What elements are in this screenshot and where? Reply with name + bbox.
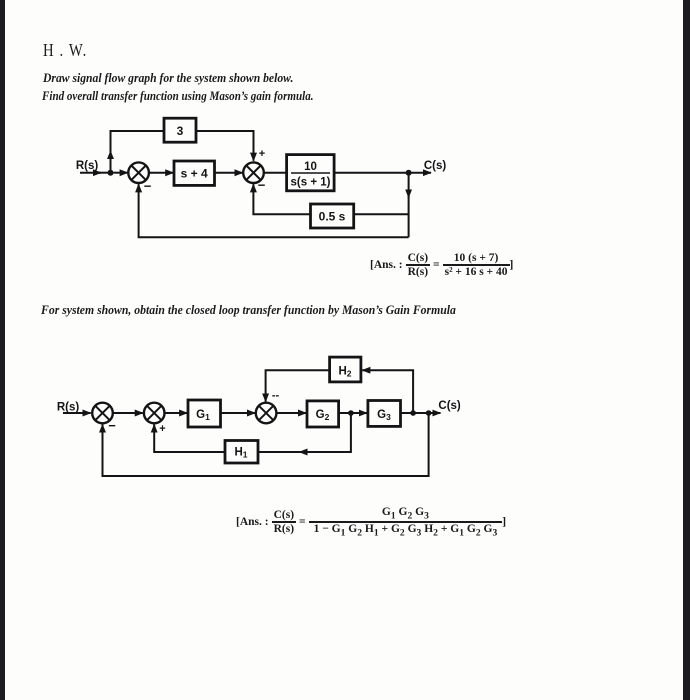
svg-text:C(s): C(s) [438,400,461,412]
wire outer loop [139,184,409,237]
svg-text:H1: H1 [234,447,247,460]
wire H1 to T2 [154,424,225,452]
block s+4 [174,161,215,185]
svg-text:H2: H2 [338,366,351,379]
svg-text:10: 10 [304,161,317,173]
wire input to node [80,172,101,174]
svg-text:+: + [259,148,265,160]
summing junction T3 [256,403,277,424]
summing junction T1 [92,403,113,424]
wire G1 to T3 [221,412,256,414]
wire H1 loop [299,413,351,452]
summing junction S2 [243,162,264,183]
wire block3 to summing junction S2 [196,131,254,161]
heading H.W. [43,40,87,61]
wire outer loop [103,413,429,476]
wire S1 to block s+4 [149,172,174,174]
svg-text:−: − [108,418,116,433]
wire input to T1 [63,412,91,414]
wire block G to C(s) [334,172,431,174]
wire to block 0.5s [354,213,409,215]
wire 0.5s to S2 bottom [253,184,310,214]
answer 2 [236,506,506,538]
block H2 [330,357,361,382]
wire H1 loop segment to block [258,451,301,453]
wire node B down [408,173,410,198]
wire T1 to T2 [113,412,143,414]
svg-text:+: + [159,423,165,435]
wire G2 to G3 [339,412,367,414]
wire node up to branch 3 [110,151,112,173]
block 10/s(s+1) [287,155,335,191]
svg-text:0.5 s: 0.5 s [319,209,346,223]
block G2 [307,401,339,427]
block 0.5s [311,204,354,228]
summing junction S1 [128,162,149,183]
diagram 1 [55,108,475,248]
node A [108,170,114,176]
diagram 2 [50,350,470,485]
svg-text:C(s): C(s) [424,160,447,172]
svg-text:--: -- [272,390,280,402]
block H1 [225,441,258,464]
svg-text:s + 4: s + 4 [181,167,208,181]
svg-text:G2: G2 [316,409,330,422]
svg-text:−: − [144,179,152,194]
wire node to summing junction S1 [114,172,128,174]
wire T2 to G1 [165,412,188,414]
svg-text:R(s): R(s) [57,402,80,414]
svg-text:G1: G1 [196,409,210,422]
wire S2 to block G [264,172,287,174]
wire G3 to C(s) [401,412,441,414]
instruction line 1 [43,71,293,86]
block G3 [368,401,401,427]
left page edge strip [0,0,5,700]
svg-text:−: − [258,178,266,193]
wire H2 to T3 [266,370,330,401]
block 3 [164,118,196,142]
middle instruction [41,303,456,318]
right page edge strip [683,0,690,700]
answer 1 [370,252,513,278]
svg-text:G3: G3 [377,409,391,422]
wire H2 loop [362,370,413,413]
svg-text:3: 3 [177,124,184,138]
svg-text:R(s): R(s) [76,160,99,172]
instruction line 2 [42,89,314,104]
node after G3 [410,410,416,416]
svg-text:s(s + 1): s(s + 1) [291,177,331,189]
node takeoff outer [426,410,432,416]
block G1 [188,400,221,427]
node after G2 [348,410,354,416]
node B [406,170,412,176]
wire T3 to G2 [276,412,306,414]
summing junction T2 [144,403,165,424]
wire s+4 to summing junction S2 [215,172,243,174]
